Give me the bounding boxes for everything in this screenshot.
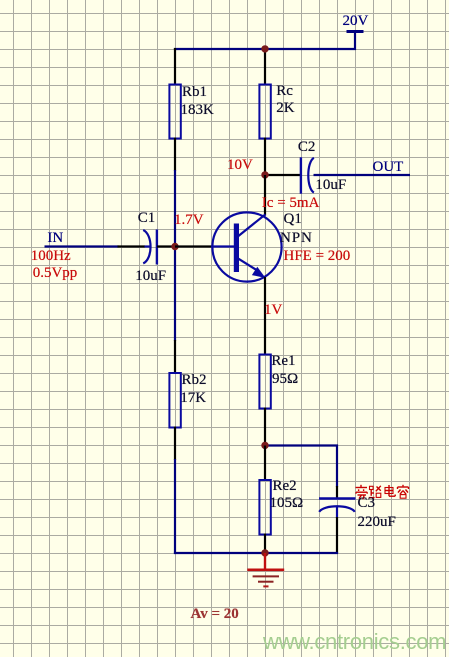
wire emitter junction to C3 xyxy=(264,446,337,488)
capacitor C1 pin right xyxy=(157,245,176,247)
label 旁路电容 (bypass capacitor, red CJK) xyxy=(356,485,409,499)
label 17K xyxy=(180,391,206,406)
label NPN xyxy=(280,231,313,246)
label C1 xyxy=(138,211,156,226)
label 10uF C2 xyxy=(315,178,346,193)
resistor Rb2 pin bottom xyxy=(174,427,176,461)
resistor Re2 pin bottom xyxy=(264,534,266,554)
label 10V xyxy=(227,158,253,173)
capacitor C1 pin left xyxy=(118,245,146,247)
junction node base xyxy=(171,243,178,250)
label Rb1 xyxy=(182,85,207,100)
label 105 ohm xyxy=(270,496,304,511)
label Rc xyxy=(276,84,293,99)
label 183K xyxy=(181,103,214,118)
wire top rail xyxy=(174,48,356,50)
label 95 ohm xyxy=(272,372,298,387)
resistor Re2 xyxy=(259,480,270,535)
resistor Rc pin bottom xyxy=(264,138,266,177)
resistor Re2 pin top xyxy=(264,446,266,482)
label 10uF C1 xyxy=(135,269,166,284)
label 20V xyxy=(343,14,369,29)
transistor Q1 base pin xyxy=(175,245,212,247)
junction node top rail xyxy=(261,45,268,52)
label Re2 xyxy=(273,479,297,494)
junction node collector xyxy=(261,171,268,178)
wire OUT xyxy=(314,174,411,176)
label Q1 xyxy=(284,212,302,227)
resistor Re1 pin bottom xyxy=(264,408,266,447)
wire left rail lower xyxy=(174,459,176,554)
resistor Rb1 pin top xyxy=(174,48,176,86)
label 1.7V xyxy=(174,213,204,228)
resistor Rb2 xyxy=(169,373,180,428)
ground xyxy=(247,553,284,586)
label IN xyxy=(47,231,63,246)
capacitor C3 xyxy=(319,499,356,519)
capacitor C3 pin top xyxy=(336,486,338,498)
watermark www.cntronics.com xyxy=(263,629,446,655)
transistor Q1 collector pin xyxy=(264,175,266,216)
label 100Hz xyxy=(31,249,71,264)
transistor Q1 emitter pin xyxy=(264,277,266,356)
power symbol 20V xyxy=(347,32,364,51)
resistor Rb1 xyxy=(169,85,180,139)
label HFE = 200 xyxy=(284,249,351,264)
label C3 xyxy=(358,496,376,511)
junction node ground xyxy=(261,549,268,556)
resistor Re1 xyxy=(259,355,270,409)
junction node emitter divider xyxy=(261,442,268,449)
label 1V xyxy=(264,303,282,318)
capacitor C1 xyxy=(143,230,157,265)
wire bottom rail xyxy=(174,552,338,554)
label Ic = 5mA xyxy=(262,196,320,211)
resistor Rc pin top xyxy=(264,48,266,86)
transistor Q1 xyxy=(211,212,282,281)
label 2K xyxy=(276,101,294,116)
label 0.5Vpp xyxy=(33,266,78,281)
label 220uF xyxy=(358,515,396,530)
label Re1 xyxy=(271,354,295,369)
label Av = 20 xyxy=(191,607,239,622)
wire left rail upper xyxy=(174,170,176,341)
capacitor C2 pin left xyxy=(264,174,300,176)
wire IN xyxy=(45,245,119,247)
capacitor C2 xyxy=(301,157,314,193)
label Rb2 xyxy=(182,373,207,388)
capacitor C3 pin bottom xyxy=(336,517,338,553)
label C2 xyxy=(298,140,316,155)
resistor Rc xyxy=(259,85,270,139)
label OUT xyxy=(373,160,404,175)
resistor Rb1 pin bottom xyxy=(174,138,176,172)
resistor Rb2 pin top xyxy=(174,340,176,374)
